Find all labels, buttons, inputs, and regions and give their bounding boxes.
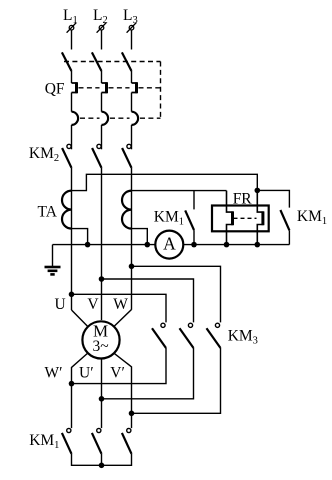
- wire L3 terminal to QF: [131, 30, 133, 50]
- wire KM3 contact 3 to motor winding end: [132, 348, 221, 413]
- wire TA2 S1 to FR left heater: [132, 190, 227, 192]
- wire phase 3 to KM3 contact 3: [132, 266, 221, 322]
- wire motor lead U diagonal: [72, 310, 89, 327]
- thermal relay FR box: [212, 206, 269, 232]
- KM1 main contact 2 fixed terminal circle: [97, 428, 101, 432]
- junction phase 1 motor branch: [69, 292, 75, 298]
- junction at (147.3,244.6): [145, 242, 151, 248]
- QF pole 3 latch element: [132, 82, 137, 93]
- terminal L1: [63, 7, 78, 33]
- FR left heater element: [227, 191, 233, 245]
- wire QF pole 3 latch to trip coil: [131, 93, 133, 112]
- KM1 main contact 3 blade: [122, 433, 132, 454]
- wire QF pole 2 blade to latch: [101, 71, 103, 83]
- junction at (257.3,244.6): [254, 242, 260, 248]
- KM1 main contact 3 fixed terminal circle: [127, 428, 131, 432]
- QF pole 2 overcurrent trip semicircle: [102, 112, 109, 125]
- motor M 3~: [82, 321, 119, 358]
- svg-text:V′: V′: [110, 364, 125, 381]
- wire KM1 left contact to bus: [193, 230, 195, 245]
- wire QF pole 1 latch to trip coil: [71, 93, 73, 112]
- current transformer TA1 secondary coil: [62, 191, 72, 229]
- KM2 contact 2 fixed terminal circle: [97, 144, 101, 148]
- junction at (194,244.6): [191, 242, 197, 248]
- star point bus: [72, 454, 132, 466]
- KM2 contact 3 fixed terminal circle: [127, 144, 131, 148]
- wire phase 3 KM2 to motor branch: [131, 168, 133, 310]
- wire TA1 S2 to ground bus: [72, 229, 88, 245]
- wire QF pole 1 blade to latch: [71, 71, 73, 83]
- KM2 contact 2 blade: [92, 148, 101, 168]
- junction at (87.6,244.6): [85, 242, 91, 248]
- bus wire right of ammeter: [183, 244, 289, 246]
- wire L1 terminal to QF: [71, 30, 73, 50]
- QF pole 2 blade: [92, 52, 102, 71]
- wire QF pole 2 latch to trip coil: [101, 93, 103, 112]
- wire KM1 middle contact to star bus: [101, 454, 103, 466]
- wire node to KM1 right contact: [257, 190, 289, 207]
- junction phase 3 motor branch: [129, 264, 135, 270]
- bus wire left of ammeter: [53, 244, 156, 246]
- QF pole 2 latch element: [102, 82, 107, 93]
- wire motor lead W diagonal: [114, 310, 132, 327]
- wire KM3 contact 2 to motor winding end: [102, 348, 194, 399]
- QF pole 3 blade: [122, 52, 132, 71]
- ammeter A: [155, 231, 183, 259]
- wire motor lead W-prime diagonal: [72, 353, 89, 428]
- KM3 contact 1 blade: [152, 328, 166, 348]
- wire TA1 S1 to FR right heater (top run): [72, 174, 258, 190]
- wire L2 terminal to QF: [101, 30, 103, 50]
- KM3 contact 2 fixed terminal circle: [188, 323, 192, 327]
- svg-text:TA: TA: [38, 204, 58, 221]
- KM3 contact 3 fixed terminal circle: [215, 323, 219, 327]
- junction winding end 3: [129, 411, 135, 417]
- svg-text:QF: QF: [45, 80, 65, 97]
- wire phase 1 to KM3 contact 1: [72, 294, 167, 322]
- junction winding end 2: [99, 396, 105, 402]
- KM1 right auxiliary contact blade: [280, 210, 289, 230]
- KM1 main contact 1 blade: [62, 433, 72, 454]
- KM3 contact 2 blade: [180, 328, 194, 348]
- KM3 contact 3 blade: [207, 328, 221, 348]
- QF pole 1 overcurrent trip semicircle: [72, 112, 79, 125]
- svg-text:3~: 3~: [93, 338, 109, 355]
- junction winding end 1: [69, 381, 75, 387]
- wire motor lead V-prime diagonal: [114, 353, 132, 428]
- wire motor lead U-prime: [101, 358, 103, 428]
- ground symbol: [45, 245, 61, 275]
- KM1 left auxiliary contact upper stub: [193, 191, 195, 210]
- wire QF pole 2 to KM2: [101, 125, 103, 149]
- wire QF pole 1 to KM2: [71, 125, 73, 149]
- junction at (226.5,244.6): [224, 242, 230, 248]
- svg-text:A: A: [163, 234, 176, 254]
- wire phase 1 KM2 to motor branch: [71, 168, 73, 310]
- QF pole 3 overcurrent trip semicircle: [132, 112, 139, 125]
- QF pole 1 latch element: [72, 82, 77, 93]
- KM2 contact 1 blade: [62, 148, 71, 168]
- KM1 main contact 1 fixed terminal circle: [67, 428, 71, 432]
- terminal L2: [93, 7, 108, 33]
- junction star point: [99, 463, 105, 469]
- junction phase 2 motor branch: [99, 276, 105, 282]
- svg-text:U′: U′: [79, 364, 94, 381]
- QF pole 1 blade: [62, 52, 72, 71]
- svg-text:W: W: [113, 296, 128, 313]
- svg-text:W′: W′: [45, 364, 63, 381]
- current transformer TA2 secondary coil: [122, 191, 132, 229]
- wire KM1 right contact to bus: [288, 230, 290, 244]
- svg-text:U: U: [55, 296, 66, 313]
- wire QF pole 3 blade to latch: [131, 71, 133, 83]
- KM2 contact 3 blade: [122, 148, 131, 168]
- wire QF pole 3 to KM2: [131, 125, 133, 149]
- wire TA2 S2 to bus: [132, 229, 148, 245]
- junction at (257.3,190.4): [254, 188, 260, 194]
- KM2 contact 1 fixed terminal circle: [67, 144, 71, 148]
- terminal L3: [123, 7, 138, 33]
- KM1 main contact 2 blade: [92, 433, 102, 454]
- FR linkage dashed line: [234, 217, 257, 219]
- KM3 contact 1 fixed terminal circle: [161, 323, 165, 327]
- svg-text:V: V: [87, 296, 99, 313]
- FR right heater element: [257, 190, 263, 244]
- QF mechanical linkage dashed lines: [64, 62, 161, 119]
- wire phase 2 to KM3 contact 2: [102, 279, 194, 322]
- KM1 left auxiliary contact blade: [185, 210, 194, 230]
- wire KM3 contact 1 to motor winding end: [72, 348, 167, 384]
- wire phase 2 KM2 to motor branch: [101, 168, 103, 320]
